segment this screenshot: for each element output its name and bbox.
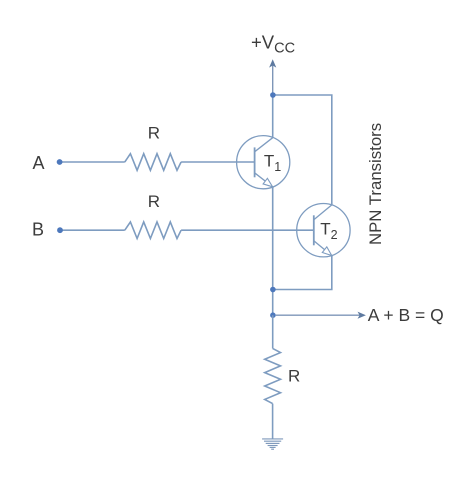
wire: input A to resistor — [61, 161, 125, 163]
svg-text:NPN Transistors: NPN Transistors — [366, 123, 385, 245]
wire: resistor to ground — [272, 404, 274, 439]
input terminal node B — [57, 227, 63, 233]
svg-text:+VCC: +VCC — [251, 31, 295, 56]
svg-text:T2: T2 — [320, 219, 337, 242]
svg-text:R: R — [288, 366, 300, 385]
svg-text:A + B = Q: A + B = Q — [368, 305, 444, 325]
wire: VCC node to T2 collector — [273, 95, 332, 205]
wire: output node to pull-down resistor — [272, 315, 274, 348]
ground — [262, 439, 283, 449]
VCC arrow — [269, 59, 276, 95]
output arrow — [276, 312, 366, 319]
junction: common emitter node — [270, 287, 276, 293]
resistor R (pull-down) — [265, 348, 281, 403]
wire: T2 emitter to common emitter node — [273, 256, 332, 290]
svg-text:B: B — [32, 220, 44, 240]
junction: output node — [270, 312, 276, 318]
resistor R (input B) — [125, 222, 181, 239]
wire: VCC node to T1 collector — [272, 95, 274, 138]
wire: resistor B to T2 base — [181, 229, 314, 231]
input terminal node A — [57, 159, 63, 165]
junction: VCC node — [270, 92, 276, 98]
wire: input B to resistor — [62, 229, 125, 231]
svg-text:R: R — [148, 123, 160, 142]
transistor T2 — [297, 204, 350, 257]
svg-text:A: A — [33, 153, 45, 173]
wire: resistor A to T1 base — [181, 161, 255, 163]
wire: T1 emitter to output node (crosses input B wire) — [272, 187, 274, 315]
svg-text:T1: T1 — [264, 151, 281, 174]
svg-text:R: R — [148, 192, 160, 211]
resistor R (input A) — [125, 154, 181, 171]
transistor T1 — [237, 136, 290, 189]
